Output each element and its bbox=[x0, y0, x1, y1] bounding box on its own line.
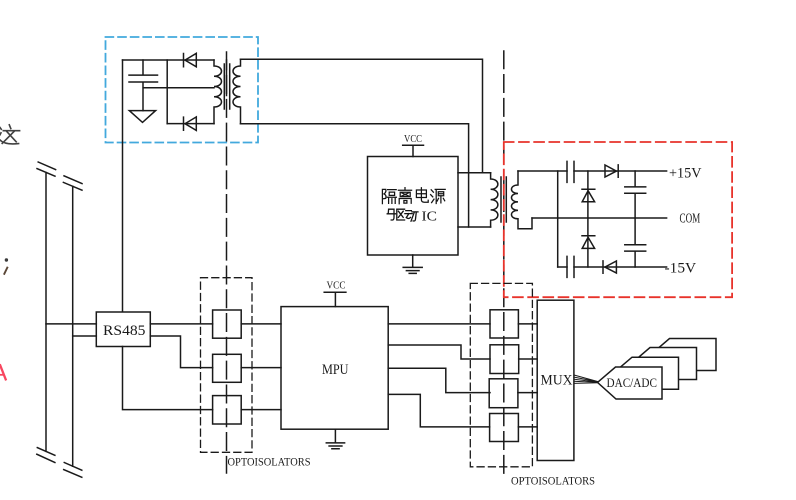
isolation barrier dashed line (left) bbox=[226, 52, 228, 473]
wire optocoupler O6 to MUX bbox=[518, 392, 537, 394]
wire bundle MUX to DAC/ADC (5 lines) bbox=[574, 375, 598, 383]
transformer T2 core bbox=[501, 177, 506, 222]
svg-text:VCC: VCC bbox=[404, 133, 422, 145]
wire driver output bottom to T2 bbox=[458, 226, 491, 228]
wire oscillator bottom rail bbox=[167, 123, 214, 125]
wire optocoupler O2 to MPU bbox=[241, 367, 281, 369]
wire bus L to RS485 bbox=[46, 323, 96, 325]
capacitor C1 bbox=[129, 60, 158, 111]
DAC/ADC card shadow 2 bbox=[632, 348, 697, 380]
wire MPU to optocoupler O6 bbox=[388, 368, 490, 392]
optocoupler O3 bbox=[213, 396, 242, 424]
DAC/ADC tag (front) bbox=[598, 367, 663, 399]
ground (open triangle) bbox=[129, 111, 155, 123]
diode D5 (clamp, upper) bbox=[582, 171, 595, 218]
label OPTOISOLATORS (right) bbox=[511, 475, 595, 487]
wire T1 secondary top to driver node bbox=[241, 59, 483, 173]
svg-text:OPTOISOLATORS: OPTOISOLATORS bbox=[228, 457, 311, 469]
wire RS485 to optoisolator 3 bbox=[123, 347, 213, 410]
label OPTOISOLATORS (left) bbox=[228, 457, 311, 469]
capacitor C5 (series, -rail) bbox=[567, 256, 574, 277]
label RS485 bbox=[103, 323, 146, 339]
optocoupler O4 bbox=[490, 310, 518, 338]
wire RS485 to optoisolator 1 bbox=[150, 323, 212, 325]
VCC power bar (driver IC) bbox=[403, 145, 424, 156]
optocoupler O1 bbox=[213, 310, 242, 338]
svg-text:IC: IC bbox=[422, 210, 438, 225]
wire bus N to RS485 bbox=[73, 335, 97, 337]
ground (MPU) bbox=[326, 429, 344, 449]
label MUX bbox=[541, 373, 573, 389]
optocoupler O5 bbox=[490, 345, 519, 374]
wire vertical link between diode rails bbox=[166, 60, 168, 124]
diode D3 (+15V series) bbox=[605, 165, 618, 177]
wire driver output top to T2 bbox=[458, 172, 491, 174]
optocoupler O6 bbox=[489, 379, 518, 408]
svg-text:COM: COM bbox=[680, 212, 701, 227]
wire COM rail bbox=[532, 217, 667, 219]
label -15V bbox=[665, 261, 697, 277]
page text fragment ; (left margin) bbox=[4, 258, 8, 274]
wire RS485 to optoisolator 2 bbox=[150, 336, 212, 368]
DAC/ADC card shadow 1 bbox=[614, 357, 679, 389]
bus line N (with break marks) bbox=[63, 176, 82, 478]
label DAC/ADC bbox=[607, 375, 658, 390]
DAC/ADC card shadow 3 (back) bbox=[652, 339, 717, 371]
svg-text:OPTOISOLATORS: OPTOISOLATORS bbox=[511, 475, 595, 487]
transformer T1 secondary winding bbox=[233, 59, 241, 123]
VCC power bar (MPU) bbox=[324, 292, 346, 306]
svg-text:MUX: MUX bbox=[541, 373, 573, 389]
diode D6 (clamp, lower) bbox=[582, 218, 595, 267]
label COM bbox=[680, 212, 701, 227]
optoisolator dashed enclosure (right) bbox=[470, 283, 532, 466]
page text fragment A (red, left margin) bbox=[0, 365, 6, 379]
wire optocoupler O4 to MUX bbox=[518, 323, 537, 325]
wire oscillator top rail bbox=[123, 59, 215, 61]
diode D4 (-15V series) bbox=[603, 261, 616, 273]
svg-text:RS485: RS485 bbox=[103, 323, 146, 339]
MUX block bbox=[537, 300, 574, 460]
svg-text:VCC: VCC bbox=[327, 279, 346, 291]
ground (driver IC) bbox=[403, 255, 422, 273]
wire -15V bottom rail bbox=[558, 266, 667, 268]
label VCC (driver IC) bbox=[404, 133, 422, 145]
bus line L (with break marks) bbox=[37, 162, 56, 463]
page text fragment 这 (left margin, hand-drawn) bbox=[0, 125, 20, 144]
wire primary centre-tap rail bbox=[143, 87, 214, 89]
capacitor C3 (filter, +15V) bbox=[625, 171, 646, 218]
push-pull oscillator dashed enclosure (blue) bbox=[106, 37, 259, 143]
wire optocoupler O3 to MPU bbox=[241, 409, 281, 411]
transformer T2 secondary winding bbox=[511, 171, 532, 229]
RS485 transceiver box bbox=[96, 312, 150, 347]
svg-text:+15V: +15V bbox=[669, 166, 702, 182]
diode D1 bbox=[184, 53, 197, 67]
optocoupler O2 bbox=[213, 354, 242, 382]
label MPU bbox=[322, 362, 349, 378]
transformer T2 primary winding bbox=[491, 173, 498, 227]
optoisolator dashed enclosure (left) bbox=[201, 278, 253, 453]
transformer T1 core bbox=[224, 64, 229, 109]
label 驱动IC (hand-drawn glyphs + IC) bbox=[387, 209, 418, 221]
wire optocoupler O5 to MUX bbox=[519, 358, 538, 360]
svg-text:-15V: -15V bbox=[665, 261, 697, 277]
wire VCC feed vertical from RS485 up to oscillator bbox=[122, 60, 124, 312]
diode D2 bbox=[184, 117, 197, 130]
transformer T1 primary winding bbox=[214, 60, 222, 124]
svg-text:MPU: MPU bbox=[322, 362, 349, 378]
wire T1 secondary bottom to driver node bbox=[241, 124, 469, 227]
capacitor C2 (series, +rail) bbox=[567, 161, 574, 182]
label 隔离电源 (hand-drawn glyphs) bbox=[382, 188, 445, 204]
label +15V bbox=[669, 166, 702, 182]
output rectifier dashed enclosure (red) bbox=[504, 142, 732, 297]
isolation barrier dashed line (right) bbox=[503, 51, 505, 478]
wire optocoupler O7 to MUX bbox=[518, 426, 537, 428]
MPU block bbox=[281, 307, 388, 430]
wire MPU to optocoupler O5 bbox=[388, 345, 490, 359]
wire optocoupler O1 to MPU bbox=[241, 323, 281, 325]
wire MPU to optocoupler O4 bbox=[388, 323, 490, 325]
IC U1: isolated-supply driver IC box bbox=[368, 157, 459, 256]
capacitor C4 (filter, -15V) bbox=[625, 218, 646, 267]
wire MPU to optocoupler O7 bbox=[388, 394, 489, 427]
svg-text:DAC/ADC: DAC/ADC bbox=[607, 375, 658, 390]
label VCC (MPU) bbox=[327, 279, 346, 291]
wire +15V top rail bbox=[518, 170, 667, 172]
optocoupler O7 bbox=[490, 414, 519, 442]
wire pump link vertical bbox=[557, 171, 559, 267]
